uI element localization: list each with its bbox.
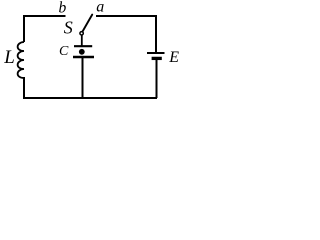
capacitor C top plate (74, 45, 92, 47)
svg-text:S: S (64, 17, 73, 37)
wire pivot to capacitor (81, 35, 83, 46)
svg-text:b: b (59, 0, 67, 17)
battery E long plate (147, 52, 165, 54)
wire battery to bottom (156, 60, 158, 98)
svg-text:a: a (96, 0, 104, 16)
inductor L (18, 42, 24, 78)
battery E short plate (152, 57, 162, 60)
svg-text:C: C (59, 44, 69, 59)
svg-text:E: E (168, 49, 179, 66)
switch S lever (83, 15, 93, 32)
capacitor C bottom plate (73, 56, 94, 58)
wire bottom (23, 97, 157, 99)
wire top-right segment from contact a (96, 16, 156, 52)
switch S pivot circle (80, 32, 83, 35)
junction dot between plates (79, 49, 85, 55)
wire left-bottom segment (23, 77, 25, 98)
svg-text:L: L (3, 47, 15, 68)
wire top-left segment to contact b (24, 16, 66, 42)
wire capacitor to bottom (82, 57, 84, 98)
